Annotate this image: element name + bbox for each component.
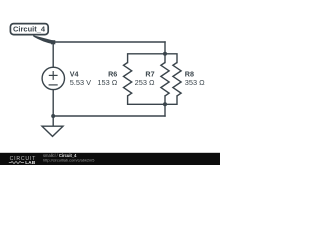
- label R8 value: [185, 69, 205, 87]
- node junction top (flag anchor, square): [51, 40, 55, 44]
- wire inner bottom rail: [128, 96, 177, 104]
- node junction V4 bottom: [51, 114, 55, 118]
- wire right drop to inner top rail: [164, 42, 166, 54]
- voltage source V4: [42, 67, 64, 89]
- svg-text:LAB: LAB: [25, 160, 36, 165]
- resistor R7: [161, 63, 169, 96]
- wire R7 top lead: [164, 54, 166, 63]
- wire R7 bottom lead: [164, 96, 166, 104]
- svg-text:5.53 V: 5.53 V: [70, 78, 91, 87]
- resistor R6: [124, 63, 132, 96]
- resistor R8: [173, 63, 181, 96]
- node junction R7 top: [163, 52, 167, 56]
- footer bar: [0, 153, 220, 165]
- svg-text:153 Ω: 153 Ω: [97, 78, 117, 87]
- wire top rail: [53, 41, 165, 43]
- wire V4 bottom lead: [52, 90, 54, 116]
- wire bottom rail: [53, 115, 165, 117]
- svg-text:http://circuitlab.com/c/abk2m5: http://circuitlab.com/c/abk2m5: [43, 157, 94, 162]
- svg-text:253 Ω: 253 Ω: [135, 78, 155, 87]
- wire riser to inner bottom rail: [164, 104, 166, 116]
- svg-text:Circuit_4: Circuit_4: [13, 24, 46, 33]
- label R6 value: [97, 69, 117, 87]
- wire V4 top lead: [52, 42, 54, 67]
- label R7 value: [135, 69, 155, 87]
- node junction R7 bottom: [163, 102, 167, 106]
- svg-text:353 Ω: 353 Ω: [185, 78, 205, 87]
- annotation flag tail: [33, 35, 54, 44]
- footer logo zigzag: [9, 161, 24, 163]
- wire inner top rail: [128, 54, 177, 63]
- ground: [42, 116, 63, 136]
- label V4 value: [70, 69, 91, 87]
- annotation flag box Circuit_4: [10, 24, 48, 35]
